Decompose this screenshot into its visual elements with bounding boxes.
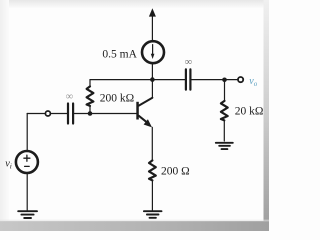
svg-text:∞: ∞ xyxy=(66,92,74,103)
svg-text:200 kΩ: 200 kΩ xyxy=(100,92,134,104)
svg-text:∞: ∞ xyxy=(185,57,193,68)
svg-text:20 kΩ: 20 kΩ xyxy=(235,106,264,118)
svg-text:0.5 mA: 0.5 mA xyxy=(102,48,137,60)
svg-text:200 Ω: 200 Ω xyxy=(161,166,190,178)
